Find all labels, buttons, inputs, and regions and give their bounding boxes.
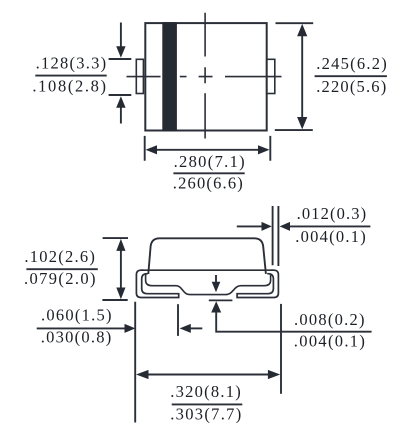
svg-text:.320(8.1): .320(8.1) xyxy=(170,382,241,401)
svg-text:.060(1.5): .060(1.5) xyxy=(41,306,112,325)
svg-text:.004(0.1): .004(0.1) xyxy=(294,332,365,351)
svg-text:.008(0.2): .008(0.2) xyxy=(294,310,365,329)
svg-text:.030(0.8): .030(0.8) xyxy=(41,328,112,347)
svg-text:.260(6.6): .260(6.6) xyxy=(173,174,243,193)
svg-text:.079(2.0): .079(2.0) xyxy=(24,269,96,288)
svg-text:.303(7.7): .303(7.7) xyxy=(170,404,241,423)
svg-text:.245(6.2): .245(6.2) xyxy=(316,54,387,73)
svg-text:.012(0.3): .012(0.3) xyxy=(297,204,367,223)
svg-text:.280(7.1): .280(7.1) xyxy=(174,152,245,171)
svg-text:.128(3.3): .128(3.3) xyxy=(36,54,107,73)
svg-text:.004(0.1): .004(0.1) xyxy=(295,227,366,246)
svg-text:.220(5.6): .220(5.6) xyxy=(316,77,386,96)
svg-text:.102(2.6): .102(2.6) xyxy=(24,247,95,266)
svg-text:.108(2.8): .108(2.8) xyxy=(32,77,106,96)
